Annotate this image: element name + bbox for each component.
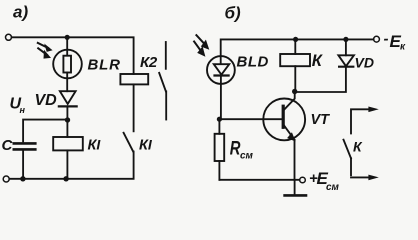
svg-text:КI: КI	[139, 137, 153, 154]
svg-text:VD: VD	[355, 54, 374, 70]
svg-text:VD: VD	[35, 92, 58, 109]
svg-text:КI: КI	[88, 137, 102, 154]
svg-text:К: К	[353, 138, 363, 154]
svg-text:а): а)	[13, 3, 28, 22]
svg-text:BLR: BLR	[88, 57, 121, 74]
svg-text:см: см	[326, 182, 340, 193]
svg-text:-: -	[384, 31, 389, 48]
svg-text:VT: VT	[311, 112, 331, 128]
svg-text:см: см	[240, 151, 254, 162]
svg-text:BLD: BLD	[237, 54, 269, 71]
svg-text:н: н	[20, 105, 26, 115]
svg-text:б): б)	[225, 3, 242, 22]
svg-text:К2: К2	[140, 54, 158, 71]
svg-text:C: C	[2, 137, 14, 154]
